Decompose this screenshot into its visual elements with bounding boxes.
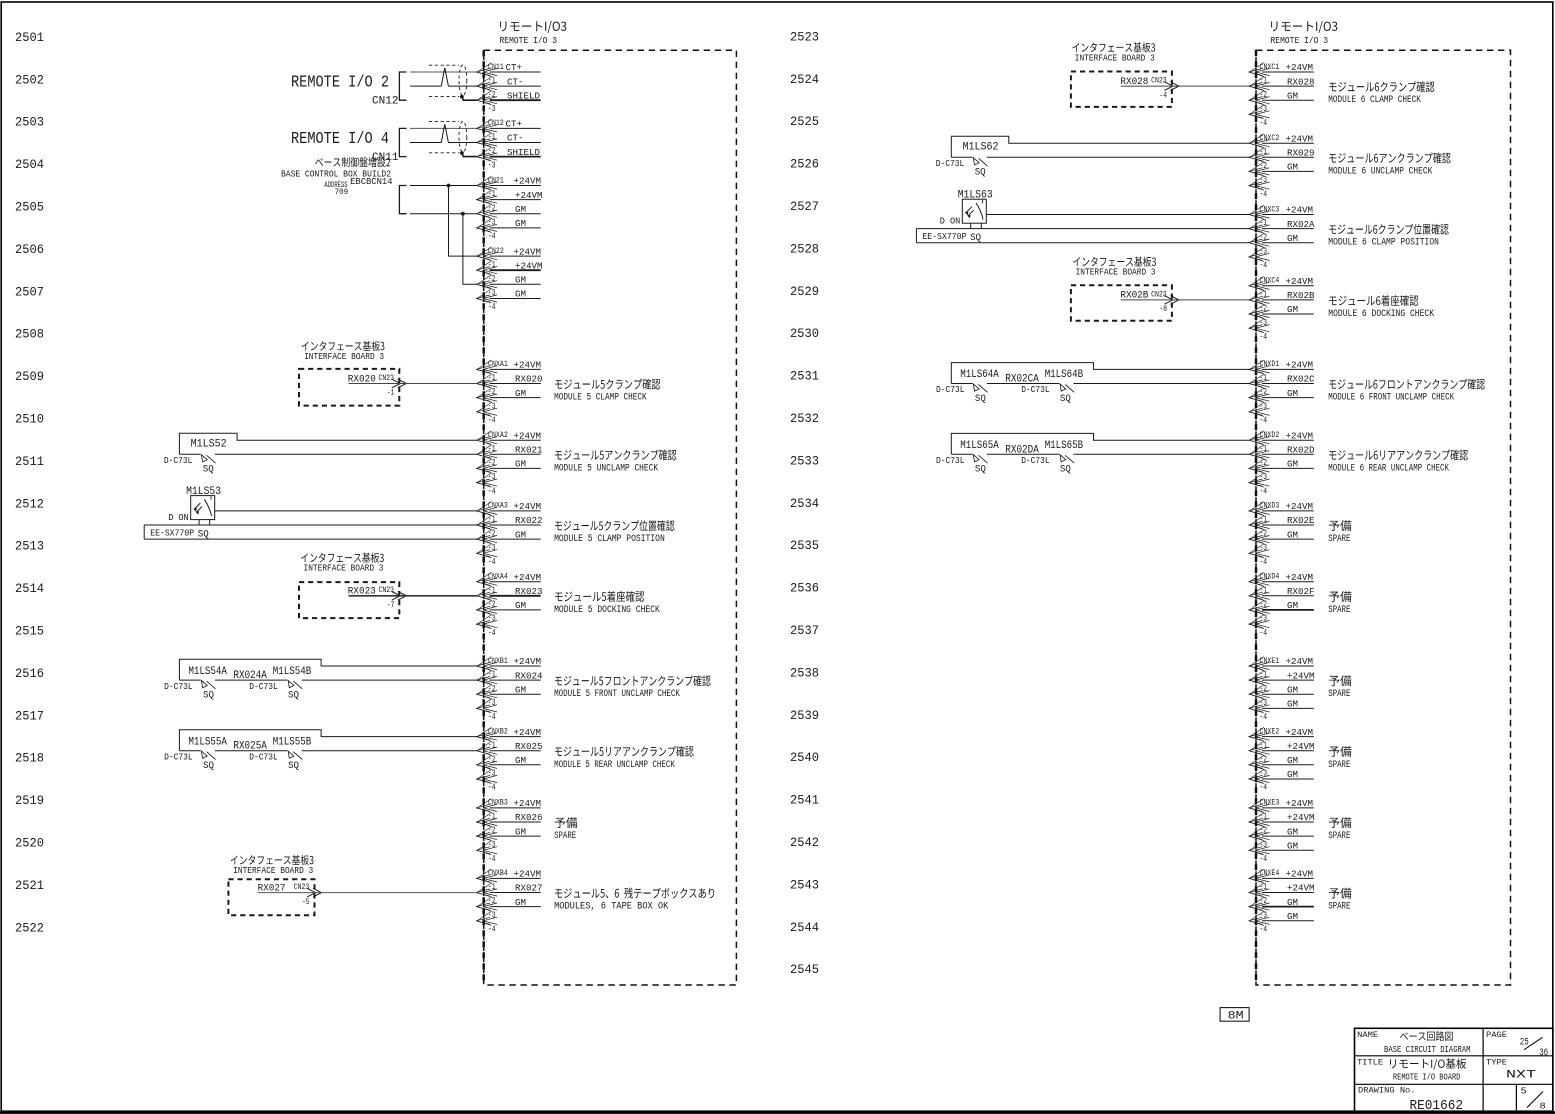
svg-text:D-C73L: D-C73L — [936, 159, 965, 169]
svg-text:-2: -2 — [488, 826, 496, 836]
svg-text:-4: -4 — [1260, 118, 1268, 128]
svg-text:GM: GM — [1287, 90, 1298, 101]
svg-text:SPARE: SPARE — [1328, 688, 1350, 699]
node signal description CNXC3 MODULE 6 CLAMP POSITION — [1328, 224, 1448, 248]
svg-text:2531: 2531 — [790, 370, 819, 384]
svg-text:-1: -1 — [488, 812, 496, 822]
svg-text:CN23: CN23 — [379, 374, 395, 383]
svg-text:+24VM: +24VM — [1286, 798, 1314, 809]
svg-text:DRAWING No.: DRAWING No. — [1358, 1086, 1416, 1096]
svg-text:MODULE 5 REAR UNCLAMP CHECK: MODULE 5 REAR UNCLAMP CHECK — [554, 759, 675, 770]
svg-text:-2: -2 — [488, 274, 496, 284]
svg-text:-4: -4 — [1260, 557, 1268, 567]
svg-text:2539: 2539 — [790, 709, 819, 723]
svg-text:M1LS55A: M1LS55A — [188, 736, 227, 748]
svg-text:GM: GM — [515, 218, 526, 229]
op-amp-style interface board 3 output RX028 via CN23-4 — [1071, 42, 1179, 107]
svg-text:M1LS52: M1LS52 — [191, 439, 227, 451]
svg-text:M1LS64B: M1LS64B — [1045, 369, 1084, 381]
svg-text:GM: GM — [515, 529, 526, 540]
svg-text:+24VM: +24VM — [1286, 430, 1314, 441]
svg-text:-3: -3 — [488, 614, 496, 624]
connector CNXC1 pins +24VM/RX028/GM/-3/-4 — [1249, 62, 1315, 128]
svg-text:-1: -1 — [1260, 882, 1268, 892]
svg-text:2534: 2534 — [790, 497, 819, 511]
svg-text:2540: 2540 — [790, 751, 819, 765]
svg-text:CN23: CN23 — [1151, 290, 1167, 299]
svg-text:RX02D: RX02D — [1287, 445, 1315, 456]
svg-text:2515: 2515 — [15, 625, 44, 639]
svg-text:RX02DA: RX02DA — [1005, 444, 1039, 456]
svg-text:-2: -2 — [1260, 826, 1268, 836]
node line-number columns 2501-2522 and 2523-2545 — [15, 30, 819, 977]
svg-text:SQ: SQ — [203, 761, 214, 772]
node signal description CNXD4 SPARE — [1328, 591, 1351, 615]
svg-text:-2: -2 — [1260, 529, 1268, 539]
svg-text:CNXD3: CNXD3 — [1260, 501, 1280, 511]
svg-text:2514: 2514 — [15, 582, 44, 596]
junction GM branch — [461, 212, 465, 216]
svg-text:CNXA1: CNXA1 — [488, 359, 508, 369]
node signal description CNXC4 MODULE 6 DOCKING CHECK — [1328, 295, 1434, 319]
svg-text:CNXA2: CNXA2 — [488, 430, 508, 440]
wire +24VM branch to CN22 pin0 — [449, 186, 477, 257]
svg-text:PAGE: PAGE — [1486, 1031, 1507, 1040]
svg-text:-2: -2 — [1260, 754, 1268, 764]
svg-text:M1LS65A: M1LS65A — [960, 440, 999, 452]
svg-text:-4: -4 — [1260, 783, 1268, 793]
svg-text:-1: -1 — [1260, 373, 1268, 383]
op-amp-style interface board 3 output RX027 via CN23-5 — [228, 855, 321, 915]
svg-text:2538: 2538 — [790, 666, 819, 680]
svg-text:GM: GM — [1287, 684, 1298, 695]
svg-text:2520: 2520 — [15, 837, 44, 851]
svg-text:-3: -3 — [1260, 175, 1268, 185]
svg-text:-2: -2 — [1260, 684, 1268, 694]
wire RX020 CN23-1 to CNXA1 pin1 — [349, 383, 477, 385]
svg-text:M1LS65B: M1LS65B — [1045, 440, 1084, 452]
svg-text:SPARE: SPARE — [1328, 759, 1350, 770]
svg-text:+24VM: +24VM — [514, 176, 542, 187]
svg-text:MODULES, 6 TAPE BOX OK: MODULES, 6 TAPE BOX OK — [554, 901, 668, 912]
svg-text:-3: -3 — [1260, 698, 1268, 708]
svg-text:+24VM: +24VM — [1286, 727, 1314, 738]
svg-text:RX024: RX024 — [515, 670, 543, 681]
node signal description CNXD2 MODULE 6 REAR UNCLAMP CHECK — [1328, 449, 1468, 473]
svg-text:GM: GM — [1287, 388, 1298, 399]
svg-text:-2: -2 — [488, 387, 496, 397]
svg-text:GM: GM — [1287, 304, 1298, 315]
node signal description SPARE — [554, 817, 577, 841]
op-amp-style interface board 3 output RX023 via CN23-7 — [299, 553, 406, 618]
svg-text:EBCBCN14: EBCBCN14 — [350, 177, 392, 187]
svg-text:+24VM: +24VM — [1287, 670, 1315, 681]
svg-text:REMOTE I/O BOARD: REMOTE I/O BOARD — [1393, 1072, 1461, 1082]
op-amp-style interface board 3 output RX020 via CN23-1 — [299, 341, 406, 406]
svg-text:-4: -4 — [1260, 628, 1268, 638]
svg-text:-1: -1 — [488, 260, 496, 270]
svg-text:-1: -1 — [488, 740, 496, 750]
svg-text:RX02CA: RX02CA — [1005, 374, 1039, 386]
svg-text:TYPE: TYPE — [1486, 1058, 1507, 1067]
svg-text:GM: GM — [1287, 459, 1298, 470]
connector CNXE3 pins +24VM/+24VM/GM/GM/-4 — [1249, 798, 1315, 864]
node signal description CNXE3 SPARE — [1328, 817, 1351, 841]
svg-text:2536: 2536 — [790, 582, 819, 596]
svg-text:CNXC3: CNXC3 — [1260, 204, 1280, 214]
svg-text:-1: -1 — [488, 373, 496, 383]
connector CN12 pins CT+/CT-/SHIELD/-3 — [476, 118, 541, 170]
svg-text:M1LS64A: M1LS64A — [960, 369, 999, 381]
svg-text:+24VM: +24VM — [515, 190, 543, 201]
svg-text:+24VM: +24VM — [1286, 572, 1314, 583]
svg-text:CN11: CN11 — [488, 62, 504, 72]
svg-text:GM: GM — [515, 289, 526, 300]
transistor-like limit switch M1LS52 (D-C73L SQ) — [164, 433, 477, 475]
svg-text:-4: -4 — [488, 232, 496, 242]
svg-text:SQ: SQ — [975, 168, 986, 179]
svg-text:D-C73L: D-C73L — [936, 385, 965, 395]
svg-text:+24VM: +24VM — [1286, 276, 1314, 287]
svg-text:M1LS63: M1LS63 — [958, 190, 993, 202]
svg-text:-1: -1 — [1260, 670, 1268, 680]
svg-text:-4: -4 — [488, 416, 496, 426]
svg-text:+24VM: +24VM — [515, 260, 543, 271]
connector CNXC4 pins +24VM/RX02B/GM/-3/-4 — [1249, 276, 1315, 342]
svg-text:D-C73L: D-C73L — [249, 682, 277, 692]
svg-text:CN22: CN22 — [488, 246, 504, 256]
svg-text:MODULE 6 CLAMP CHECK: MODULE 6 CLAMP CHECK — [1328, 94, 1421, 105]
connector CNXD2 pins +24VM/RX02D/GM/-3/-4 — [1249, 430, 1315, 496]
svg-text:NAME: NAME — [1357, 1031, 1378, 1040]
node signal description MODULE 5 CLAMP POSITION — [554, 520, 674, 544]
svg-text:-2: -2 — [488, 529, 496, 539]
svg-text:CT-: CT- — [507, 133, 524, 144]
svg-text:-1: -1 — [1260, 147, 1268, 157]
svg-text:-1: -1 — [488, 76, 496, 86]
connector CNXA2 pins +24VM/RX021/GM/-3/-4 — [476, 430, 543, 496]
svg-text:-2: -2 — [488, 90, 496, 100]
wire RX028 CN23-4 to CNXC1 pin1 — [1121, 85, 1249, 87]
connector CN11 pins CT+/CT-/SHIELD/-3 — [476, 62, 541, 114]
node signal description CNXE2 SPARE — [1328, 746, 1351, 770]
wire RX027 CN23-5 to CNXB4 pin1 — [258, 892, 477, 894]
svg-text:-2: -2 — [1260, 304, 1268, 314]
svg-text:2505: 2505 — [15, 201, 44, 215]
svg-text:CN12: CN12 — [372, 96, 399, 108]
svg-text:2542: 2542 — [790, 836, 819, 850]
svg-text:GM: GM — [1287, 233, 1298, 244]
transistor-like photo sensor M1LS63 (EE-SX770P, D ON) — [916, 190, 1249, 244]
svg-text:-1: -1 — [488, 515, 496, 525]
op-amp-style interface board 3 output RX02B via CN23-8 — [1071, 257, 1179, 321]
svg-text:GM: GM — [515, 204, 526, 215]
svg-text:-1: -1 — [488, 585, 496, 595]
svg-text:-2: -2 — [1260, 387, 1268, 397]
svg-text:-3: -3 — [488, 698, 496, 708]
svg-text:CT+: CT+ — [506, 62, 523, 73]
svg-text:INTERFACE BOARD 3: INTERFACE BOARD 3 — [1076, 268, 1156, 278]
svg-text:-4: -4 — [1159, 90, 1167, 100]
svg-text:RX02C: RX02C — [1287, 374, 1315, 385]
svg-text:-3: -3 — [1260, 247, 1268, 257]
svg-text:-4: -4 — [1260, 712, 1268, 722]
svg-text:2530: 2530 — [790, 327, 819, 341]
svg-text:+24VM: +24VM — [514, 869, 542, 880]
svg-text:CNXE3: CNXE3 — [1260, 798, 1280, 808]
svg-text:+24VM: +24VM — [1286, 656, 1314, 667]
wire GM branch to CN22 pin2 — [463, 214, 477, 285]
node signal description CNXD3 SPARE — [1328, 520, 1351, 544]
svg-text:+24VM: +24VM — [514, 360, 542, 371]
svg-text:2529: 2529 — [790, 285, 819, 299]
svg-text:-4: -4 — [488, 486, 496, 496]
svg-text:CT+: CT+ — [506, 119, 523, 130]
svg-text:EE-SX770P: EE-SX770P — [150, 529, 194, 539]
node signal description MODULE 5 FRONT UNCLAMP CHECK — [554, 675, 711, 699]
svg-text:GM: GM — [1287, 162, 1298, 173]
node signal description MODULE 5 REAR UNCLAMP CHECK — [554, 746, 694, 770]
connector CNXB2 pins +24VM/RX025/GM/-3/-4 — [476, 726, 542, 792]
svg-text:CNXA4: CNXA4 — [488, 572, 508, 582]
svg-text:SPARE: SPARE — [1328, 830, 1350, 841]
transistor-like series limit switches M1LS54A/M1LS54B (RX024A) — [164, 659, 477, 701]
svg-text:+24VM: +24VM — [1287, 741, 1315, 752]
svg-text:GM: GM — [1287, 911, 1298, 922]
node signal description MODULES, 6 TAPE BOX OK — [554, 888, 714, 912]
svg-text:MODULE 6 REAR UNCLAMP CHECK: MODULE 6 REAR UNCLAMP CHECK — [1328, 462, 1449, 473]
svg-text:2503: 2503 — [15, 116, 44, 130]
svg-text:-2: -2 — [488, 600, 496, 610]
connector CNXB1 pins +24VM/RX024/GM/-3/-4 — [476, 656, 543, 722]
svg-text:2523: 2523 — [790, 30, 819, 44]
svg-text:2535: 2535 — [790, 539, 819, 553]
svg-text:GM: GM — [515, 755, 526, 766]
svg-text:CNXE2: CNXE2 — [1260, 726, 1280, 736]
svg-text:-2: -2 — [488, 684, 496, 694]
svg-text:GM: GM — [1287, 600, 1298, 611]
svg-text:2533: 2533 — [790, 454, 819, 468]
svg-text:2518: 2518 — [15, 752, 44, 766]
svg-text:-4: -4 — [488, 712, 496, 722]
svg-text:-8: -8 — [1159, 304, 1167, 314]
svg-text:SQ: SQ — [975, 465, 986, 476]
svg-text:D-C73L: D-C73L — [164, 682, 193, 692]
svg-text:SQ: SQ — [203, 465, 214, 476]
svg-text:RX020: RX020 — [515, 374, 543, 385]
svg-text:709: 709 — [335, 188, 349, 197]
svg-text:+24VM: +24VM — [514, 572, 542, 583]
svg-text:+24VM: +24VM — [1286, 62, 1314, 73]
svg-text:+24VM: +24VM — [514, 430, 542, 441]
svg-text:GM: GM — [1287, 755, 1298, 766]
svg-text:-4: -4 — [1260, 854, 1268, 864]
svg-text:CNXC4: CNXC4 — [1260, 276, 1280, 286]
svg-text:MODULE 5 FRONT UNCLAMP CHECK: MODULE 5 FRONT UNCLAMP CHECK — [554, 688, 680, 699]
svg-text:GM: GM — [515, 459, 526, 470]
svg-text:RX022: RX022 — [515, 515, 543, 526]
connector CNXB4 pins +24VM/RX027/GM/-3/-4 — [476, 868, 542, 934]
transistor-like photo sensor M1LS53 (EE-SX770P, D ON) — [144, 486, 476, 540]
svg-text:D ON: D ON — [940, 217, 961, 227]
svg-text:-1: -1 — [488, 189, 496, 199]
svg-text:-3: -3 — [488, 218, 496, 228]
svg-text:2516: 2516 — [15, 667, 44, 681]
svg-text:-4: -4 — [1260, 925, 1268, 935]
svg-text:-2: -2 — [488, 896, 496, 906]
svg-text:-3: -3 — [488, 543, 496, 553]
svg-text:SQ: SQ — [198, 529, 209, 540]
svg-text:2519: 2519 — [15, 794, 44, 808]
svg-text:+24VM: +24VM — [514, 656, 542, 667]
svg-text:-4: -4 — [488, 925, 496, 935]
svg-text:SQ: SQ — [1060, 394, 1071, 405]
svg-text:M1LS62: M1LS62 — [963, 142, 999, 154]
svg-text:-4: -4 — [1260, 416, 1268, 426]
svg-text:CNXE4: CNXE4 — [1260, 868, 1280, 878]
svg-text:-4: -4 — [488, 854, 496, 864]
svg-text:CNXB2: CNXB2 — [488, 726, 508, 736]
svg-text:MODULE 5 CLAMP POSITION: MODULE 5 CLAMP POSITION — [554, 533, 665, 544]
svg-text:2521: 2521 — [15, 879, 44, 893]
svg-text:2501: 2501 — [15, 31, 44, 45]
svg-text:2541: 2541 — [790, 794, 819, 808]
svg-text:RX02E: RX02E — [1287, 515, 1315, 526]
svg-text:+24VM: +24VM — [514, 246, 542, 257]
svg-text:-1: -1 — [1260, 515, 1268, 525]
svg-text:8: 8 — [1540, 1100, 1546, 1111]
svg-text:MODULE 5 CLAMP CHECK: MODULE 5 CLAMP CHECK — [554, 392, 647, 403]
svg-text:-1: -1 — [488, 444, 496, 454]
svg-text:SHIELD: SHIELD — [507, 90, 540, 101]
svg-text:2508: 2508 — [15, 328, 44, 342]
svg-text:SPARE: SPARE — [1328, 604, 1350, 615]
svg-text:-3: -3 — [1260, 318, 1268, 328]
svg-text:-3: -3 — [1260, 614, 1268, 624]
svg-text:RX026: RX026 — [515, 812, 543, 823]
svg-text:2517: 2517 — [15, 709, 44, 723]
connector CNXB3 pins +24VM/RX026/GM/-3/-4 — [476, 798, 542, 864]
connector CNXD1 pins +24VM/RX02C/GM/-3/-4 — [1249, 359, 1315, 425]
connector CNXE4 pins +24VM/+24VM/GM/GM/-4 — [1249, 868, 1315, 934]
node 8M page marker — [1220, 1008, 1249, 1023]
svg-text:+24VM: +24VM — [514, 798, 542, 809]
svg-text:-4: -4 — [488, 628, 496, 638]
svg-text:RX027: RX027 — [515, 883, 543, 894]
svg-text:-4: -4 — [1260, 332, 1268, 342]
svg-text:D-C73L: D-C73L — [1021, 456, 1049, 466]
svg-text:CN23: CN23 — [294, 883, 310, 892]
svg-text:-1: -1 — [488, 670, 496, 680]
svg-text:2545: 2545 — [790, 963, 819, 977]
connector CN22 pins +24VM/+24VM/GM/GM/-4 — [476, 246, 542, 312]
svg-text:M1LS53: M1LS53 — [186, 486, 221, 498]
svg-text:-1: -1 — [1260, 444, 1268, 454]
svg-text:-3: -3 — [1260, 472, 1268, 482]
svg-text:CNXD4: CNXD4 — [1260, 572, 1280, 582]
svg-text:SQ: SQ — [288, 761, 299, 772]
svg-text:REMOTE I/O 3: REMOTE I/O 3 — [500, 36, 558, 46]
svg-text:-1: -1 — [387, 388, 395, 398]
svg-text:RX025A: RX025A — [233, 741, 267, 753]
svg-text:M1LS54B: M1LS54B — [273, 666, 312, 678]
svg-text:CNXD1: CNXD1 — [1260, 359, 1280, 369]
svg-text:-4: -4 — [1260, 486, 1268, 496]
svg-text:-2: -2 — [1260, 458, 1268, 468]
svg-text:-1: -1 — [1260, 740, 1268, 750]
svg-text:SPARE: SPARE — [554, 830, 576, 841]
svg-text:GM: GM — [515, 826, 526, 837]
connector CNXE2 pins +24VM/+24VM/GM/GM/-4 — [1249, 726, 1315, 792]
remote I/O board 3 dashed enclosure — [484, 21, 737, 985]
svg-text:GM: GM — [515, 388, 526, 399]
wire RX023 CN23-7 to CNXA4 pin1 — [349, 595, 477, 597]
svg-text:GM: GM — [515, 600, 526, 611]
svg-text:MODULE 5 DOCKING CHECK: MODULE 5 DOCKING CHECK — [554, 604, 660, 615]
svg-text:-2: -2 — [488, 146, 496, 156]
svg-text:2527: 2527 — [790, 200, 819, 214]
svg-text:CT-: CT- — [507, 76, 524, 87]
svg-text:-1: -1 — [1260, 290, 1268, 300]
svg-text:+24VM: +24VM — [514, 727, 542, 738]
svg-text:-3: -3 — [1260, 840, 1268, 850]
svg-text:CNXE1: CNXE1 — [1260, 656, 1280, 666]
svg-text:MODULE 6 DOCKING CHECK: MODULE 6 DOCKING CHECK — [1328, 308, 1434, 319]
svg-text:-3: -3 — [1260, 104, 1268, 114]
svg-text:CNXB1: CNXB1 — [488, 656, 508, 666]
svg-text:TITLE: TITLE — [1357, 1058, 1383, 1067]
svg-text:2510: 2510 — [15, 413, 44, 427]
svg-text:D-C73L: D-C73L — [936, 456, 965, 466]
svg-text:CNXD2: CNXD2 — [1260, 430, 1280, 440]
svg-text:CN12: CN12 — [488, 118, 504, 128]
connector CNXA1 pins +24VM/RX020/GM/-3/-4 — [476, 359, 542, 425]
svg-text:RX02A: RX02A — [1287, 219, 1315, 230]
svg-text:25: 25 — [1520, 1036, 1529, 1048]
svg-text:RX02B: RX02B — [1287, 290, 1315, 301]
svg-text:2506: 2506 — [15, 243, 44, 257]
svg-text:SHIELD: SHIELD — [507, 147, 540, 158]
svg-text:2532: 2532 — [790, 412, 819, 426]
wire +24VM feed CN21 pin0 — [410, 185, 477, 187]
svg-text:RX023: RX023 — [515, 586, 543, 597]
svg-text:2511: 2511 — [15, 455, 44, 469]
svg-text:CNXC2: CNXC2 — [1260, 133, 1280, 143]
svg-text:-3: -3 — [488, 401, 496, 411]
svg-text:RE01662: RE01662 — [1410, 1099, 1464, 1114]
svg-text:SPARE: SPARE — [1328, 901, 1350, 912]
node signal description MODULE 5 UNCLAMP CHECK — [554, 449, 676, 473]
wire RX02B CN23-8 to CNXC4 pin1 — [1121, 299, 1249, 301]
svg-text:SQ: SQ — [1060, 465, 1071, 476]
svg-text:-4: -4 — [1260, 189, 1268, 199]
svg-text:-7: -7 — [387, 600, 395, 610]
svg-text:CNXA3: CNXA3 — [488, 501, 508, 511]
svg-text:INTERFACE BOARD 3: INTERFACE BOARD 3 — [1075, 53, 1155, 63]
transistor-like series limit switches M1LS64A/M1LS64B (RX02CA) — [936, 363, 1249, 405]
svg-text:INTERFACE BOARD 3: INTERFACE BOARD 3 — [233, 866, 313, 876]
svg-text:-2: -2 — [1260, 161, 1268, 171]
svg-text:GM: GM — [1287, 769, 1298, 780]
svg-text:2522: 2522 — [15, 921, 44, 935]
svg-text:2502: 2502 — [15, 73, 44, 87]
svg-text:GM: GM — [1287, 529, 1298, 540]
svg-text:-4: -4 — [488, 557, 496, 567]
connector CNXA4 pins +24VM/RX023/GM/-3/-4 — [476, 572, 542, 638]
remote I/O board 3 dashed enclosure — [1256, 21, 1511, 985]
connector CNXC2 pins +24VM/RX029/GM/-3/-4 — [1249, 133, 1315, 199]
svg-text:-3: -3 — [488, 840, 496, 850]
